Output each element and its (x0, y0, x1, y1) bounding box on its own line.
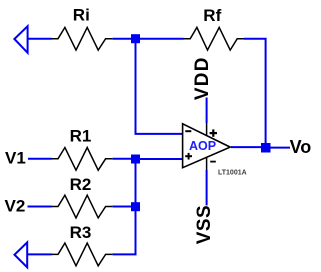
wire (28, 38, 52, 40)
svg-text:AOP: AOP (189, 139, 216, 153)
wire (113, 206, 132, 208)
wire (231, 146, 262, 148)
svg-text:LT1001A: LT1001A (218, 169, 247, 176)
svg-text:R3: R3 (70, 223, 92, 242)
wire (140, 158, 183, 160)
node B (R1/R2 junction, op-amp + input) (131, 155, 140, 164)
svg-text:Ri: Ri (73, 6, 90, 25)
wire (27, 253, 51, 255)
VDD supply pin (black stub) (206, 123, 208, 135)
op-amp U1 (triangle body) (183, 124, 231, 168)
node A (Ri/Rf junction) (131, 34, 140, 43)
VSS supply pin (black stub) (206, 157, 208, 171)
node D (output junction) (261, 143, 271, 153)
op-amp U1 inverting input marker (-) (185, 130, 191, 132)
wire (270, 147, 290, 149)
svg-text:V1: V1 (5, 149, 26, 168)
wire (135, 163, 137, 203)
svg-text:VSS: VSS (194, 205, 215, 245)
svg-text:V2: V2 (5, 197, 26, 216)
wire (113, 158, 132, 160)
wire (244, 39, 266, 144)
resistor R2 (51, 195, 113, 218)
wire (28, 206, 52, 208)
svg-text:VDD: VDD (192, 56, 213, 100)
resistor Ri (51, 27, 113, 50)
wire (136, 43, 183, 134)
wire (113, 38, 132, 40)
port arrow P1 (top-left input terminal) (14, 26, 27, 53)
op-amp U1 non-inverting input marker (+) (185, 153, 192, 160)
wire (140, 38, 184, 40)
resistor R1 (51, 148, 113, 171)
resistor Rf (183, 27, 244, 50)
op-amp U1 positive supply marker (+) (210, 129, 217, 136)
svg-text:R2: R2 (70, 175, 92, 194)
svg-text:Rf: Rf (203, 6, 221, 25)
svg-text:R1: R1 (70, 127, 92, 146)
node C (R2/R3 junction) (131, 202, 140, 211)
port arrow P2 (bottom-left ground reference) (15, 242, 28, 267)
resistor R3 (51, 243, 113, 266)
svg-text:Vo: Vo (290, 137, 312, 157)
wire (113, 211, 136, 254)
wire (206, 170, 208, 205)
wire (206, 98, 208, 124)
op-amp U1 negative supply marker (-) (210, 161, 216, 163)
wire (28, 158, 52, 160)
